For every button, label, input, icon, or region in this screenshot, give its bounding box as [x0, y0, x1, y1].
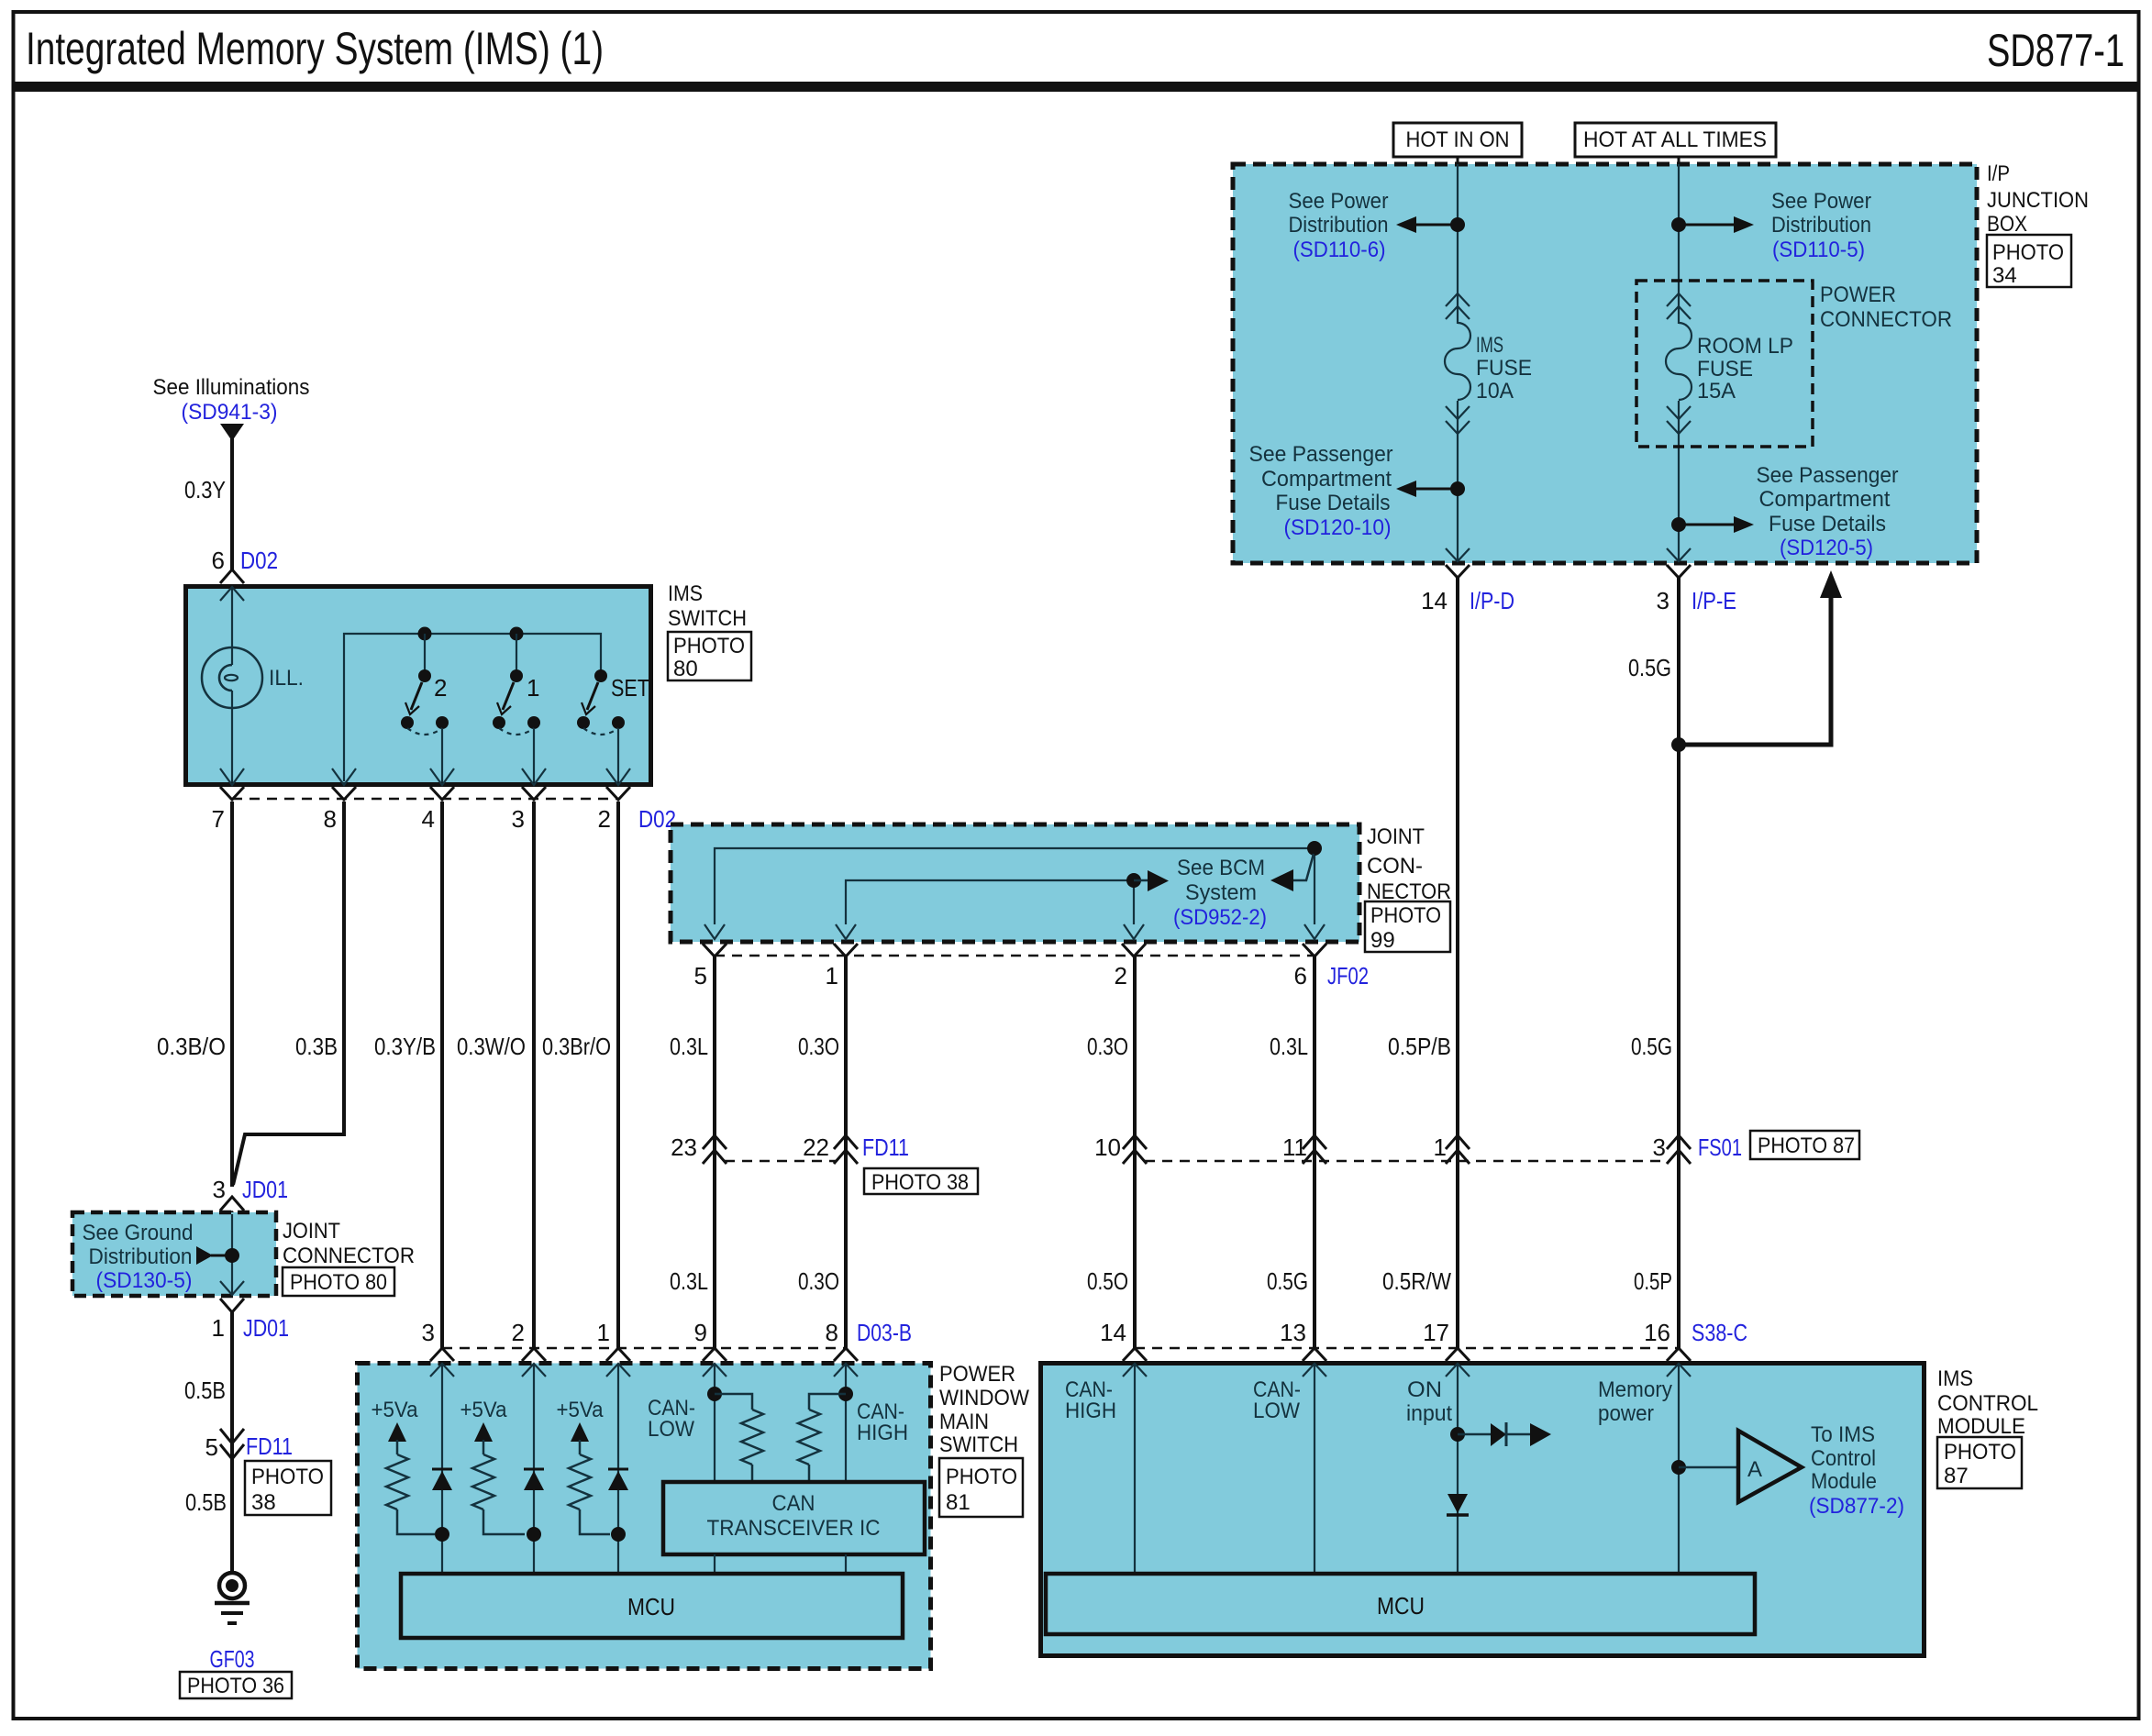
svg-text:D03-B: D03-B [857, 1319, 912, 1346]
entry chevrons pin17 [1446, 1348, 1470, 1361]
svg-text:(SD877-2): (SD877-2) [1809, 1494, 1904, 1519]
svg-text:0.3L: 0.3L [1270, 1033, 1308, 1060]
imsswitch [186, 581, 752, 833]
svg-text:99: 99 [1370, 928, 1395, 953]
svg-text:0.5B: 0.5B [185, 1488, 227, 1516]
svg-text:87: 87 [1944, 1464, 1969, 1488]
FS01 connector chevrons pin3 [1667, 1135, 1691, 1164]
svg-text:(SD110-5): (SD110-5) [1772, 238, 1865, 262]
svg-text:IMS: IMS [668, 581, 703, 606]
svg-text:17: 17 [1423, 1319, 1449, 1346]
svg-text:FUSE: FUSE [1476, 356, 1532, 381]
svg-text:5: 5 [205, 1433, 218, 1461]
svg-text:3: 3 [422, 1319, 435, 1346]
title rule [13, 82, 2139, 92]
D03-B dashed line [442, 1347, 846, 1350]
FD11 connector chevrons pin22 [834, 1135, 858, 1164]
arrow to power dist right [1679, 224, 1736, 227]
arrow from BCM text [1270, 869, 1293, 891]
entry chevrons pin13 [1303, 1348, 1326, 1361]
svg-text:0.3B/O: 0.3B/O [157, 1033, 226, 1060]
svg-text:(SD120-10): (SD120-10) [1284, 515, 1392, 540]
svg-text:3: 3 [1657, 587, 1669, 614]
junction dot CAN-HIGH [838, 1387, 853, 1401]
svg-text:16: 16 [1644, 1319, 1670, 1346]
diode 2 [524, 1468, 544, 1471]
wire JF02-5 to D03-B 9 [713, 956, 716, 1348]
svg-text:1: 1 [527, 674, 539, 702]
svg-text:D02: D02 [240, 547, 278, 574]
arrow to BCM text [1134, 879, 1149, 882]
svg-text:JF02: JF02 [1327, 962, 1369, 990]
svg-text:See Passenger: See Passenger [1249, 442, 1393, 467]
arrow from illuminations [220, 424, 244, 441]
inline connector FD11 chevrons [220, 1429, 244, 1459]
svg-text:IMS: IMS [1937, 1366, 1973, 1391]
svg-text:POWER: POWER [939, 1362, 1015, 1387]
junction dot CAN-LOW [707, 1387, 722, 1401]
wire IC to MCU left [714, 1554, 715, 1574]
stem sw2 [424, 634, 426, 670]
svg-text:See Power: See Power [1289, 189, 1389, 214]
svg-text:CONNECTOR: CONNECTOR [283, 1244, 415, 1268]
entry chevrons pin1 [606, 1348, 630, 1361]
op-amp A [1738, 1431, 1802, 1502]
resistor 1 tail to dot [397, 1509, 435, 1534]
svg-text:PHOTO: PHOTO [251, 1465, 324, 1489]
power window main switch box [358, 1364, 931, 1669]
svg-text:(SD130-5): (SD130-5) [96, 1268, 193, 1293]
entry chevrons pin14 [1123, 1348, 1147, 1361]
wire JF02-6 to S38-C 13 [1313, 956, 1316, 1348]
wire I/P-D to S38-C 17 [1456, 578, 1459, 1348]
svg-text:11: 11 [1282, 1133, 1307, 1161]
svg-text:PHOTO 87: PHOTO 87 [1758, 1133, 1855, 1158]
svg-text:FS01: FS01 [1698, 1133, 1742, 1161]
svg-text:FD11: FD11 [246, 1432, 293, 1460]
PHOTO 38 box [864, 1168, 978, 1194]
svg-text:0.5O: 0.5O [1087, 1267, 1128, 1295]
junction dot fuse details left [1450, 481, 1465, 496]
arrow to power dist left [1414, 224, 1458, 227]
svg-text:Distribution: Distribution [89, 1244, 193, 1269]
svg-text:input: input [1406, 1401, 1452, 1426]
svg-text:7: 7 [212, 805, 225, 833]
exit arrow wire I/P-E [1667, 548, 1691, 561]
svg-text:(SD952-2): (SD952-2) [1173, 905, 1267, 930]
FS01 connector chevrons pin10 [1123, 1135, 1147, 1164]
POWER CONNECTOR inner box [1636, 281, 1813, 447]
ROOM LP fuse symbol [1667, 293, 1691, 319]
svg-text:I/P: I/P [1987, 161, 2010, 186]
IMS control module box [1041, 1364, 1925, 1656]
FD11 connector chevrons pin23 [703, 1135, 727, 1164]
wire IMS fuse branch [1457, 164, 1459, 324]
CAN transceiver IC box [663, 1482, 925, 1554]
svg-text:WINDOW: WINDOW [939, 1386, 1029, 1410]
svg-text:PHOTO 80: PHOTO 80 [290, 1270, 387, 1295]
junction dot 2 [527, 1527, 541, 1542]
lamp wire [231, 589, 233, 665]
svg-text:MCU: MCU [627, 1593, 675, 1620]
svg-text:PHOTO: PHOTO [946, 1465, 1017, 1489]
svg-text:0.5P/B: 0.5P/B [1388, 1033, 1451, 1060]
connector chevrons JD01 top [220, 1197, 244, 1226]
junction dot power dist left [1450, 217, 1465, 232]
arrow to fuse details left [1414, 488, 1458, 491]
svg-text:SWITCH: SWITCH [668, 606, 747, 631]
svg-text:14: 14 [1421, 587, 1448, 614]
switch SET [577, 669, 649, 735]
svg-text:2: 2 [434, 674, 447, 702]
svg-text:POWER: POWER [1820, 282, 1896, 307]
svg-text:Control: Control [1811, 1446, 1876, 1471]
switch bus line [344, 634, 601, 781]
svg-text:FUSE: FUSE [1697, 357, 1753, 381]
D02 bottom dashed line [232, 798, 618, 801]
wire I/P-E to S38-C 16 [1677, 578, 1681, 1348]
svg-text:See Passenger: See Passenger [1757, 463, 1899, 488]
lamp filament [219, 665, 232, 691]
svg-text:MCU: MCU [1377, 1592, 1425, 1620]
ground distribution box [72, 1212, 276, 1296]
svg-text:0.3W/O: 0.3W/O [457, 1033, 526, 1060]
junction dot sw2 [418, 627, 432, 641]
wire pin8 inside [845, 1364, 847, 1482]
svg-text:HIGH: HIGH [1065, 1399, 1116, 1423]
FS01 connector chevrons pin1 [1446, 1135, 1470, 1164]
bus wire B jf02-1 to jf02-2 [846, 880, 1134, 924]
svg-text:10A: 10A [1476, 379, 1514, 404]
MCU box [401, 1574, 903, 1638]
wire pin16 inside [1678, 1364, 1680, 1574]
memory power feedback arrow [1679, 594, 1831, 745]
FS01 dashed line [1145, 1160, 1667, 1163]
wire hot in on stub [1457, 157, 1459, 164]
svg-text:IMS: IMS [1476, 333, 1503, 358]
svg-text:power: power [1598, 1401, 1654, 1426]
lamp ILL circle [202, 647, 262, 708]
exit arrows at box bottom [704, 924, 725, 939]
arrow to fuse details right [1679, 524, 1736, 526]
svg-text:80: 80 [673, 657, 698, 681]
resistor 2 tail to dot [483, 1509, 525, 1534]
svg-text:Module: Module [1811, 1469, 1877, 1494]
svg-text:PHOTO: PHOTO [1944, 1440, 2016, 1465]
entry chevrons pin9 [703, 1348, 727, 1361]
svg-text:I/P-D: I/P-D [1470, 587, 1514, 614]
wire 0.3B elbow from pin8 [233, 802, 344, 1185]
svg-text:S38-C: S38-C [1692, 1319, 1747, 1346]
svg-text:PHOTO 38: PHOTO 38 [871, 1170, 969, 1195]
junction dot power dist right [1671, 217, 1686, 232]
svg-text:2: 2 [598, 805, 611, 833]
svg-text:A: A [1747, 1457, 1762, 1482]
resistor 2 [472, 1454, 494, 1509]
svg-text:FD11: FD11 [862, 1133, 909, 1161]
svg-text:6: 6 [1294, 962, 1307, 990]
wire pin7 to JD01 [230, 802, 234, 1187]
resistor 3 [569, 1454, 591, 1509]
wire 0.5B lower [230, 1458, 234, 1573]
svg-text:PHOTO: PHOTO [1370, 903, 1441, 928]
svg-text:0.5G: 0.5G [1267, 1267, 1308, 1295]
wire pin2 inside [533, 1364, 535, 1574]
entry chevrons pin2 [522, 1348, 546, 1361]
svg-text:1: 1 [597, 1319, 610, 1346]
diode down on ON input [1448, 1494, 1468, 1513]
wire pin9 inside [714, 1364, 715, 1482]
svg-text:1: 1 [212, 1314, 225, 1342]
wire from sw2 to pin4 [441, 728, 443, 782]
svg-text:LOW: LOW [1253, 1399, 1300, 1423]
svg-text:CONTROL: CONTROL [1937, 1391, 2038, 1416]
wire room fuse branch [1678, 164, 1680, 324]
line to op-amp [1679, 1466, 1738, 1469]
svg-text:2: 2 [512, 1319, 525, 1346]
svg-text:0.5P: 0.5P [1634, 1267, 1672, 1295]
FD11 dashed line [725, 1160, 836, 1163]
arrow to ground wire [196, 1246, 213, 1265]
wire pin17 inside [1457, 1364, 1459, 1574]
HOT AT ALL TIMES box [1575, 123, 1776, 157]
svg-text:Memory: Memory [1598, 1377, 1672, 1402]
svg-text:JUNCTION: JUNCTION [1987, 188, 2089, 213]
svg-text:CAN: CAN [772, 1491, 815, 1516]
svg-text:MODULE: MODULE [1937, 1414, 2025, 1439]
svg-text:SWITCH: SWITCH [939, 1432, 1018, 1457]
svg-text:3: 3 [1653, 1133, 1666, 1161]
svg-text:CONNECTOR: CONNECTOR [1820, 307, 1952, 332]
junction dot ON input [1450, 1427, 1465, 1442]
svg-text:Distribution: Distribution [1289, 213, 1389, 238]
entry chevron wire A [220, 587, 244, 601]
termination resistor left [715, 1394, 752, 1410]
JF02 female chevrons [703, 944, 727, 956]
PHOTO 80 box [283, 1267, 394, 1296]
svg-text:(SD941-3): (SD941-3) [182, 400, 278, 425]
jointconn [671, 824, 1451, 990]
entry chevrons pin3 [430, 1348, 454, 1361]
PHOTO 87 box [1937, 1437, 2022, 1488]
svg-text:14: 14 [1100, 1319, 1126, 1346]
svg-text:LOW: LOW [648, 1417, 694, 1442]
svg-text:BOX: BOX [1987, 212, 2027, 237]
svg-text:JD01: JD01 [243, 1314, 289, 1342]
svg-text:SD877-1: SD877-1 [1987, 25, 2124, 76]
junction dot jf02-2 [1126, 873, 1141, 888]
entry chevrons pin8 [834, 1348, 858, 1361]
wire through ground box [231, 1214, 233, 1295]
junction dot 3 [611, 1527, 626, 1542]
svg-text:0.5G: 0.5G [1631, 1033, 1672, 1060]
svg-text:1: 1 [826, 962, 838, 990]
wire pin2 to D03-B 1 [616, 802, 620, 1348]
wire pin13 inside [1314, 1364, 1315, 1574]
svg-text:+5Va: +5Va [557, 1398, 605, 1422]
wire JF02-2 to S38-C 14 [1133, 956, 1137, 1348]
PHOTO 38 box [245, 1461, 331, 1515]
switch 1 [493, 669, 540, 735]
wire pin1 inside [617, 1364, 619, 1574]
svg-text:0.3Br/O: 0.3Br/O [542, 1033, 611, 1060]
svg-text:6: 6 [212, 547, 225, 574]
svg-text:JOINT: JOINT [283, 1219, 340, 1244]
svg-text:0.3Y/B: 0.3Y/B [374, 1033, 436, 1060]
joint connector box [671, 824, 1359, 942]
PHOTO 87 box [1750, 1131, 1859, 1159]
svg-text:2: 2 [1115, 962, 1127, 990]
junction dot memory power op-amp [1671, 1460, 1686, 1475]
svg-text:0.3B: 0.3B [295, 1033, 338, 1060]
svg-text:0.5G: 0.5G [1628, 654, 1671, 681]
svg-text:9: 9 [694, 1319, 707, 1346]
wire pin14 inside [1134, 1364, 1136, 1574]
ipbox [1233, 123, 2089, 752]
wire 0.5B [230, 1311, 234, 1458]
svg-text:13: 13 [1280, 1319, 1306, 1346]
wire 0.3Y [230, 438, 234, 569]
svg-text:System: System [1185, 880, 1257, 905]
pwswitch [358, 1348, 1030, 1669]
svg-text:See Illuminations: See Illuminations [153, 375, 310, 400]
junction dot jf02-6 [1307, 841, 1322, 856]
svg-text:ROOM LP: ROOM LP [1697, 334, 1793, 359]
svg-text:3: 3 [512, 805, 525, 833]
svg-text:To IMS: To IMS [1811, 1422, 1875, 1447]
svg-text:0.5R/W: 0.5R/W [1382, 1267, 1451, 1295]
wire pin3 to D03-B 2 [532, 802, 536, 1348]
svg-text:See Power: See Power [1771, 189, 1871, 214]
svg-text:PHOTO 36: PHOTO 36 [187, 1674, 284, 1698]
diode branch right [1458, 1433, 1491, 1436]
svg-text:Fuse Details: Fuse Details [1769, 512, 1886, 536]
wire pin3 inside [441, 1364, 443, 1574]
svg-text:8: 8 [324, 805, 337, 833]
junction dot sw1 [510, 627, 524, 641]
wire hot at all times stub [1678, 157, 1681, 164]
imscm [1041, 1348, 2039, 1656]
FS01 connector chevrons pin11 [1303, 1135, 1326, 1164]
svg-text:34: 34 [1992, 263, 2017, 288]
junction dot memory power [1671, 737, 1686, 752]
power arrow 1 [388, 1422, 406, 1442]
svg-text:0.3Y: 0.3Y [184, 476, 226, 503]
entry chevrons pin16 [1667, 1348, 1691, 1361]
svg-text:HOT AT ALL TIMES: HOT AT ALL TIMES [1583, 127, 1767, 152]
svg-text:0.3L: 0.3L [670, 1267, 708, 1295]
PHOTO 81 box [939, 1458, 1023, 1517]
svg-text:Integrated Memory System (IMS): Integrated Memory System (IMS) (1) [26, 23, 604, 74]
wire pin4 to D03-B 3 [440, 802, 444, 1348]
svg-text:0.3L: 0.3L [670, 1033, 708, 1060]
resistor 3 tail to dot [580, 1509, 610, 1534]
svg-text:+5Va: +5Va [460, 1398, 508, 1422]
I/P junction box [1233, 164, 1977, 563]
svg-text:JOINT: JOINT [1367, 824, 1425, 849]
svg-text:MAIN: MAIN [939, 1410, 989, 1434]
svg-text:10: 10 [1094, 1133, 1121, 1161]
svg-text:15A: 15A [1697, 379, 1736, 404]
svg-text:D02: D02 [638, 805, 676, 833]
diode 3 [608, 1468, 628, 1471]
svg-text:8: 8 [826, 1319, 838, 1346]
junction dot 1 [435, 1527, 449, 1542]
PHOTO 36 box [180, 1672, 292, 1698]
PHOTO 34 box [1987, 235, 2071, 287]
termination resistor right [809, 1394, 846, 1410]
svg-text:+5Va: +5Va [372, 1398, 419, 1422]
HOT IN ON box [1393, 123, 1522, 157]
svg-text:See Ground: See Ground [83, 1221, 194, 1245]
JF02 dashed line [715, 955, 1314, 957]
svg-text:ILL.: ILL. [269, 666, 304, 691]
svg-text:5: 5 [694, 962, 707, 990]
svg-text:SET: SET [611, 674, 649, 702]
svg-text:PHOTO: PHOTO [673, 634, 745, 658]
svg-text:81: 81 [946, 1490, 971, 1515]
diode 1 [432, 1468, 452, 1471]
IMS fuse symbol [1446, 293, 1470, 319]
svg-text:(SD110-6): (SD110-6) [1293, 238, 1386, 262]
bus wire A jf02-5 to jf02-6 [715, 848, 1314, 924]
S38-C dashed line [1135, 1347, 1679, 1350]
svg-text:0.3O: 0.3O [1087, 1033, 1128, 1060]
svg-text:0.3O: 0.3O [798, 1033, 839, 1060]
svg-text:See BCM: See BCM [1177, 856, 1265, 880]
connector chevrons JD01 bottom [220, 1281, 244, 1295]
svg-text:ON: ON [1407, 1377, 1442, 1402]
svg-text:TRANSCEIVER IC: TRANSCEIVER IC [707, 1516, 881, 1541]
junction dot fuse details right [1671, 517, 1686, 532]
switch 2 [401, 669, 449, 735]
leftcol [72, 375, 415, 1698]
svg-text:22: 22 [803, 1133, 829, 1161]
svg-text:23: 23 [671, 1133, 697, 1161]
exit arrows at box bottom [220, 768, 244, 785]
svg-text:38: 38 [251, 1490, 276, 1515]
PHOTO 80 box [668, 632, 751, 680]
svg-text:0.5B: 0.5B [184, 1377, 226, 1404]
svg-text:Compartment: Compartment [1759, 487, 1891, 512]
midwires [374, 578, 1859, 1348]
svg-text:4: 4 [422, 805, 435, 833]
ground symbol GF03 [219, 1573, 245, 1598]
wire from sw1 to pin3 [533, 728, 535, 782]
svg-text:0.3O: 0.3O [798, 1267, 839, 1295]
stem sw1 [516, 634, 517, 670]
exit arrow wire I/P-D [1446, 548, 1470, 561]
D02 bottom female chevrons [220, 787, 244, 800]
power arrow 2 [474, 1422, 493, 1442]
svg-text:Distribution: Distribution [1771, 213, 1871, 238]
svg-text:PHOTO: PHOTO [1992, 240, 2064, 265]
svg-text:Compartment: Compartment [1261, 467, 1392, 492]
wire from SET to pin2 [617, 728, 619, 782]
wire IC to MCU right [845, 1554, 847, 1574]
svg-text:GF03: GF03 [210, 1645, 255, 1673]
svg-text:HIGH: HIGH [857, 1421, 908, 1445]
svg-text:3: 3 [213, 1176, 226, 1203]
svg-text:HOT IN ON: HOT IN ON [1406, 127, 1510, 152]
MCU box [1046, 1574, 1755, 1634]
junction dot ground box [225, 1248, 239, 1263]
svg-text:JD01: JD01 [242, 1176, 288, 1203]
resistor 1 [386, 1454, 408, 1509]
power arrow 3 [571, 1422, 589, 1442]
svg-text:CON-: CON- [1367, 854, 1423, 879]
PHOTO 99 box [1365, 901, 1450, 952]
